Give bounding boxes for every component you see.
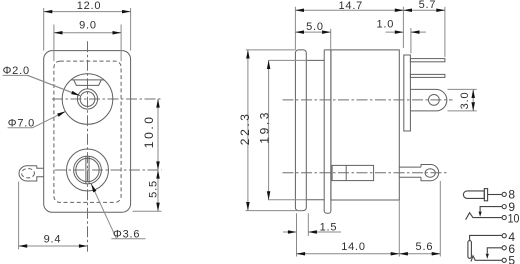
svg-text:5: 5: [508, 254, 515, 264]
mounting ear hole (hidden): [22, 169, 35, 178]
side lower ear hole: [425, 169, 435, 178]
dim 14.7 extension lines: [295, 7, 403, 50]
side mid lug divider: [345, 165, 347, 180]
svg-text:1.5: 1.5: [320, 222, 338, 234]
side pin 1: [410, 59, 445, 62]
lower jack ring inner (phi 3.6): [76, 158, 99, 181]
dim 12.0 line: [44, 11, 131, 13]
terminal 9: [502, 205, 506, 209]
side neck top edge: [306, 59, 324, 61]
svg-text:5.7: 5.7: [419, 0, 437, 11]
dim 14.0 extension line: [398, 200, 400, 257]
leader phi 3.6: [111, 238, 145, 240]
svg-text:14.0: 14.0: [341, 241, 366, 253]
svg-text:22.3: 22.3: [238, 111, 252, 145]
svg-text:1.0: 1.0: [376, 18, 394, 30]
dim 3.0 line: [472, 89, 474, 111]
side rear terminal strip: [404, 55, 411, 131]
side mid lug: [332, 165, 374, 180]
dim 19.3 line: [268, 60, 270, 199]
svg-text:Φ2.0: Φ2.0: [3, 65, 30, 77]
svg-text:12.0: 12.0: [77, 0, 102, 12]
dim 1.5 arrows: [283, 231, 297, 233]
center pin ring: [77, 89, 97, 109]
center pin symbol: [463, 191, 484, 199]
mounting ear lobe: [19, 166, 44, 181]
leader phi 7.0: [8, 127, 33, 129]
side main body: [331, 50, 399, 200]
dim 14.0 line: [297, 253, 400, 255]
terminal 10: [502, 215, 506, 219]
side bracket strip: [324, 50, 331, 213]
upper jack keyway notch: [71, 80, 104, 86]
side lower centerline: [283, 172, 447, 174]
side tab centerline: [283, 99, 453, 101]
svg-text:Φ3.6: Φ3.6: [113, 228, 140, 240]
front view vertical centerline: [87, 41, 89, 251]
center pin crossbar: [484, 189, 487, 201]
dim 1.0 extension line: [410, 28, 412, 53]
lower jack slot: [86, 156, 89, 183]
dim 5.7 line: [403, 9, 445, 11]
side tab 3.0: [410, 89, 446, 111]
dim 22.3 extension lines: [246, 50, 303, 211]
dim 19.3 extension lines: [268, 60, 306, 199]
wire terminal 9 switch: [480, 207, 502, 212]
front view outer body: [44, 51, 131, 213]
svg-text:10.0: 10.0: [142, 114, 156, 148]
dim 9.4 extension line left: [18, 182, 20, 250]
dim 10.0 line: [157, 99, 159, 170]
side body top edge left part: [324, 49, 331, 51]
dim 1.5 extension lines: [297, 213, 309, 256]
sleeve symbol: [468, 241, 472, 259]
wire terminal 4 sleeve: [470, 235, 503, 240]
dim 3.0 extension lines: [448, 89, 477, 111]
wire terminal 10 spring: [466, 213, 503, 220]
svg-text:Φ7.0: Φ7.0: [8, 117, 35, 129]
side lower ear: [421, 165, 439, 181]
lower jack outer circle: [67, 149, 109, 191]
lower jack horizontal centerline: [55, 169, 162, 171]
dim 12.0 extension lines: [44, 8, 131, 51]
leader phi 2.0: [3, 75, 80, 95]
dim 1.0 arrows: [386, 31, 404, 33]
svg-text:5.6: 5.6: [416, 241, 434, 253]
side pin 2: [410, 74, 445, 77]
terminal 8: [502, 192, 506, 196]
svg-text:5.5: 5.5: [147, 180, 159, 198]
side neck bottom edge: [306, 199, 324, 201]
dim 5.6 line: [399, 253, 440, 255]
dim 5.0 extension line: [330, 29, 332, 50]
dim 9.0 extension lines: [54, 25, 121, 62]
svg-text:19.3: 19.3: [258, 110, 272, 144]
switch arrow 6: [486, 254, 489, 259]
lower jack ring outer: [74, 156, 102, 184]
dim 5.7 extension line: [444, 7, 446, 57]
upper jack horizontal centerline: [52, 98, 162, 100]
switch arrow 9: [479, 212, 482, 217]
dim 5.5 line: [157, 170, 159, 211]
center pin (phi 2.0): [80, 92, 95, 107]
wire terminal 6 switch: [487, 248, 502, 254]
svg-text:14.7: 14.7: [338, 0, 363, 12]
upper jack barrel circle (phi 7.0): [62, 74, 113, 125]
dim 22.3 line: [247, 50, 249, 211]
dim 9.4 line: [19, 245, 88, 247]
side tab hole: [429, 95, 440, 106]
terminal 5: [502, 258, 506, 262]
dim 9.0 line: [54, 32, 121, 34]
terminal 6: [502, 246, 506, 250]
svg-text:5.0: 5.0: [306, 21, 324, 33]
side lower ear bar: [399, 167, 421, 177]
dim 5.5 extension line bottom: [133, 210, 162, 212]
svg-text:10: 10: [508, 212, 520, 226]
terminal 4: [502, 234, 506, 238]
svg-text:9.4: 9.4: [44, 234, 62, 246]
dim 5.0 line: [295, 31, 330, 33]
dim 14.7 line: [295, 9, 403, 11]
dim 5.6 extension line: [439, 181, 441, 257]
wire terminal 5 spring: [471, 256, 502, 262]
wire pin to terminal 8: [488, 194, 503, 196]
front view hidden inner outline (dashed): [54, 61, 121, 202]
side flange plate: [295, 50, 306, 211]
svg-text:3.0: 3.0: [459, 91, 471, 109]
svg-text:9.0: 9.0: [79, 20, 97, 32]
